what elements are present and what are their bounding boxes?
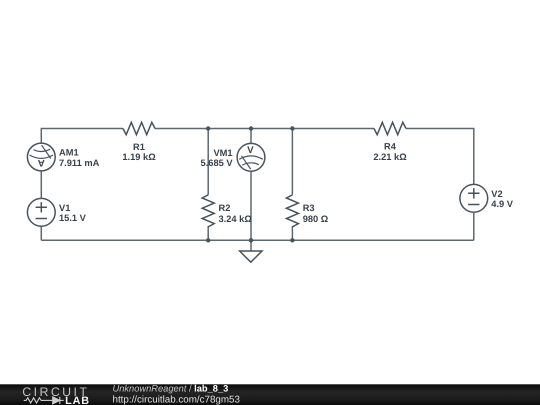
footer bar xyxy=(0,384,540,405)
label VM1 xyxy=(201,148,234,168)
svg-text:5.685 V: 5.685 V xyxy=(201,158,234,168)
label V1 xyxy=(59,203,87,223)
wire ground stub xyxy=(250,240,252,251)
svg-text:V: V xyxy=(247,145,254,156)
resistor R4 xyxy=(374,122,406,134)
svg-text:V1: V1 xyxy=(59,203,70,213)
voltmeter VM1 xyxy=(237,143,265,171)
svg-text:4.9 V: 4.9 V xyxy=(491,199,514,209)
wire R2 branch top xyxy=(207,129,209,195)
wire R3 branch top xyxy=(291,129,293,195)
svg-text:R4: R4 xyxy=(384,142,397,152)
svg-text:R2: R2 xyxy=(219,203,231,213)
node junction top VM1 xyxy=(249,126,253,130)
svg-text:3.24 kΩ: 3.24 kΩ xyxy=(219,214,253,224)
ammeter AM1 xyxy=(27,143,55,171)
wire R3 branch bottom xyxy=(291,228,293,240)
node junction bottom R2 xyxy=(206,238,210,242)
wire top middle R1 to R4 xyxy=(155,128,374,130)
svg-text:A: A xyxy=(38,157,45,168)
voltage source V2 xyxy=(460,184,488,212)
node junction bottom R3 xyxy=(290,238,294,242)
svg-text:7.911 mA: 7.911 mA xyxy=(59,158,100,168)
svg-text:R1: R1 xyxy=(133,142,145,152)
svg-text:980 Ω: 980 Ω xyxy=(303,214,329,224)
svg-text:V2: V2 xyxy=(491,189,502,199)
node junction top R2 xyxy=(206,126,210,130)
logo wire to diode xyxy=(44,399,53,401)
svg-text:2.21 kΩ: 2.21 kΩ xyxy=(373,152,407,162)
resistor R2 xyxy=(202,195,214,229)
resistor R1 xyxy=(123,122,155,134)
label V2 xyxy=(491,189,514,209)
svg-text:1.19 kΩ: 1.19 kΩ xyxy=(122,152,156,162)
logo resistor zigzag xyxy=(24,397,64,404)
label R3 xyxy=(303,203,329,224)
svg-text:http://circuitlab.com/c78gm53: http://circuitlab.com/c78gm53 xyxy=(113,394,241,405)
wire R2 branch bottom xyxy=(207,228,209,240)
wire bottom-left corner to V1 xyxy=(40,226,42,240)
svg-text:VM1: VM1 xyxy=(213,148,232,158)
wire V2 bottom to bottom-right corner xyxy=(473,212,475,240)
label R1 xyxy=(122,142,156,162)
node junction top R3 xyxy=(290,126,294,130)
wire top-left corner from AM1 to R1 xyxy=(41,129,123,144)
svg-text:R3: R3 xyxy=(303,203,315,213)
label AM1 xyxy=(59,148,100,168)
wire bottom rail xyxy=(41,239,474,241)
label R4 xyxy=(373,142,407,162)
resistor R3 xyxy=(286,195,298,229)
label R2 xyxy=(219,203,253,224)
svg-text:AM1: AM1 xyxy=(59,148,79,158)
svg-text:15.1 V: 15.1 V xyxy=(59,213,87,223)
node junction bottom ground xyxy=(249,238,253,242)
logo diode xyxy=(53,397,60,404)
wire V1 to AM1 xyxy=(40,171,42,199)
ground xyxy=(240,251,262,262)
wire top-right corner to V2 xyxy=(406,129,474,185)
svg-text:UnknownReagent / lab_8_3: UnknownReagent / lab_8_3 xyxy=(113,384,229,394)
svg-text:LAB: LAB xyxy=(65,395,90,405)
voltage source V1 xyxy=(27,198,55,226)
wire VM1 bottom to bottom rail xyxy=(250,171,252,240)
wire VM1 branch top xyxy=(250,129,252,144)
